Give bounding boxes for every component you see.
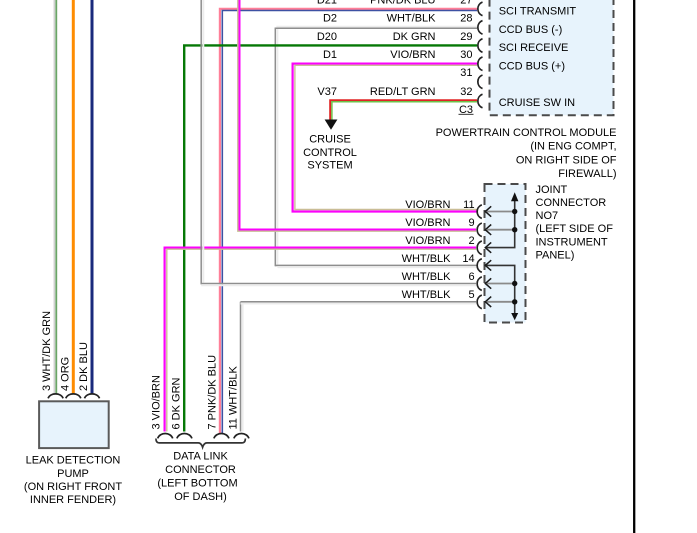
svg-text:PANEL): PANEL)	[536, 249, 575, 261]
bus up arrow	[511, 192, 518, 201]
cruise control system caption	[303, 133, 357, 171]
joint connector internal bus (bottom segment)	[487, 265, 515, 313]
svg-text:NO7: NO7	[536, 210, 559, 222]
svg-text:RED/LT GRN: RED/LT GRN	[370, 86, 436, 98]
svg-text:29: 29	[460, 31, 472, 43]
bus down arrow	[511, 313, 518, 320]
wire label row 29	[317, 31, 473, 43]
DLC pin 11	[234, 434, 249, 439]
pump pin 3	[48, 394, 63, 398]
svg-text:DK GRN: DK GRN	[393, 31, 436, 43]
svg-text:27: 27	[460, 0, 472, 6]
svg-text:LEAK DETECTION: LEAK DETECTION	[26, 455, 121, 467]
svg-text:11: 11	[463, 199, 474, 211]
leak detection pump box	[39, 401, 109, 448]
svg-text:CCD BUS (-): CCD BUS (-)	[499, 24, 563, 36]
svg-text:(LEFT SIDE OF: (LEFT SIDE OF	[536, 223, 614, 235]
svg-text:32: 32	[460, 86, 472, 98]
svg-text:VIO/BRN: VIO/BRN	[405, 217, 450, 229]
wire D1 VIO/BRN: PCM pin 30 to joint connector pin 11	[293, 64, 477, 212]
joint connector pin 14	[477, 259, 482, 273]
svg-text:D21: D21	[317, 0, 337, 6]
svg-text:VIO/BRN: VIO/BRN	[405, 235, 450, 247]
internal arrowheads pointing to pins	[485, 206, 491, 307]
wire D21 PNK/DK BLU: DLC pin 7 to PCM pin 27	[220, 9, 477, 433]
svg-text:DATA LINK: DATA LINK	[173, 451, 228, 463]
svg-text:INNER FENDER): INNER FENDER)	[30, 494, 116, 506]
C3 underline	[459, 113, 474, 115]
joint connector pin 5	[477, 295, 482, 309]
joint connector internal bus (top segment)	[487, 200, 515, 248]
wire WHT/DK GRN to leak detection pump pin 3	[54, 0, 56, 394]
svg-text:2: 2	[468, 235, 474, 247]
svg-text:CONNECTOR: CONNECTOR	[165, 464, 236, 476]
wire label row 32	[317, 86, 472, 98]
wire DK BLU to leak detection pump pin 2	[91, 0, 94, 394]
svg-text:CCD BUS (+): CCD BUS (+)	[499, 60, 565, 72]
svg-text:(LEFT BOTTOM: (LEFT BOTTOM	[157, 478, 237, 490]
svg-text:D2: D2	[323, 13, 337, 25]
DLC pin 6	[177, 434, 192, 439]
pump caption	[24, 455, 122, 507]
wire label row 30	[323, 49, 473, 61]
powertrain control module box U1 (PCM)	[490, 0, 614, 115]
joint connector pin 2	[477, 241, 482, 255]
wire WHT/BLK joint pin 5 from DLC pin 11	[241, 302, 477, 432]
svg-text:11 WHT/BLK: 11 WHT/BLK	[228, 365, 240, 429]
svg-text:(ON RIGHT FRONT: (ON RIGHT FRONT	[24, 481, 122, 493]
svg-text:4 ORG: 4 ORG	[59, 357, 71, 391]
svg-text:POWERTRAIN CONTROL MODULE: POWERTRAIN CONTROL MODULE	[436, 127, 617, 139]
joint connector caption	[536, 184, 614, 262]
joint connector pin 11	[477, 205, 482, 219]
wire label row 27	[317, 0, 473, 6]
PCM pin 28	[478, 21, 483, 35]
svg-text:7 PNK/DK BLU: 7 PNK/DK BLU	[207, 355, 219, 430]
wire V37 RED/LT GRN: PCM pin 32 to cruise control system	[330, 100, 477, 119]
svg-text:(IN ENG COMPT,: (IN ENG COMPT,	[530, 141, 616, 153]
svg-text:3 VIO/BRN: 3 VIO/BRN	[151, 375, 163, 429]
svg-text:9: 9	[468, 217, 474, 229]
svg-text:OF DASH): OF DASH)	[174, 491, 227, 503]
svg-text:31: 31	[460, 67, 472, 79]
svg-text:INSTRUMENT: INSTRUMENT	[536, 236, 608, 248]
wire D20 DK GRN: DLC pin 6 to PCM pin 29	[184, 45, 477, 431]
wire D2 WHT/BLK: PCM pin 28 to joint connector pin 14	[275, 27, 477, 267]
svg-text:WHT/BLK: WHT/BLK	[402, 253, 452, 265]
PCM pin 32	[478, 94, 483, 108]
svg-text:CRUISE SW IN: CRUISE SW IN	[499, 97, 575, 109]
joint connector pin 6	[477, 277, 482, 291]
svg-text:PUMP: PUMP	[57, 468, 89, 480]
PCM pin 31	[478, 75, 483, 89]
svg-text:FIREWALL): FIREWALL)	[558, 168, 616, 180]
pump rotated wire labels	[41, 311, 90, 391]
svg-text:D1: D1	[323, 49, 337, 61]
wire WHT/BLK joint pin 6 from top	[201, 0, 476, 285]
svg-text:WHT/BLK: WHT/BLK	[387, 13, 437, 25]
joint connector NO7 box	[485, 184, 526, 323]
svg-text:WHT/BLK: WHT/BLK	[402, 289, 452, 301]
svg-text:VIO/BRN: VIO/BRN	[390, 49, 435, 61]
DLC caption	[157, 451, 237, 503]
DLC pin 7	[214, 434, 229, 439]
svg-text:D20: D20	[317, 31, 337, 43]
svg-text:PNK/DK BLU: PNK/DK BLU	[370, 0, 435, 6]
svg-text:V37: V37	[317, 86, 337, 98]
DLC rotated wire labels	[151, 355, 240, 430]
svg-text:VIO/BRN: VIO/BRN	[405, 199, 450, 211]
PCM pin 29	[478, 39, 483, 53]
DLC bracket	[156, 439, 246, 448]
svg-text:5: 5	[468, 289, 474, 301]
bus junction dots	[512, 209, 517, 305]
svg-text:JOINT: JOINT	[536, 184, 568, 196]
svg-text:SCI RECEIVE: SCI RECEIVE	[499, 42, 569, 54]
wire VIO/BRN joint pin 2 from DLC pin 3	[165, 248, 476, 432]
pump pin 2	[85, 394, 100, 398]
DLC pin 3	[158, 434, 173, 439]
wire ORG to leak detection pump pin 4	[72, 0, 75, 394]
svg-text:CRUISE: CRUISE	[309, 133, 351, 145]
svg-text:SYSTEM: SYSTEM	[307, 160, 352, 172]
PCM pin 27	[478, 2, 483, 16]
PCM caption	[436, 127, 617, 180]
svg-text:ON RIGHT SIDE OF: ON RIGHT SIDE OF	[516, 154, 617, 166]
svg-text:CONNECTOR: CONNECTOR	[536, 197, 607, 209]
PCM pin 30	[478, 57, 483, 71]
svg-text:3 WHT/DK GRN: 3 WHT/DK GRN	[41, 311, 53, 391]
svg-text:6 DK GRN: 6 DK GRN	[171, 377, 183, 429]
page border line	[633, 0, 635, 533]
svg-text:SCI TRANSMIT: SCI TRANSMIT	[499, 6, 577, 18]
joint connector pin 9	[477, 223, 482, 237]
pump pin 4	[66, 394, 81, 398]
wire VIO/BRN joint pin 9 from top	[238, 0, 476, 231]
joint connector wire labels	[402, 199, 475, 301]
internal arrow shafts	[487, 212, 515, 302]
svg-text:14: 14	[462, 253, 474, 265]
svg-text:28: 28	[460, 13, 472, 25]
svg-text:6: 6	[468, 271, 474, 283]
svg-text:30: 30	[460, 49, 472, 61]
svg-text:2 DK BLU: 2 DK BLU	[78, 342, 90, 391]
svg-text:WHT/BLK: WHT/BLK	[402, 271, 452, 283]
arrow to cruise control system	[325, 120, 338, 130]
svg-text:CONTROL: CONTROL	[303, 147, 357, 159]
PCM internal pin function labels	[499, 6, 577, 110]
wire label row 28	[323, 13, 473, 25]
